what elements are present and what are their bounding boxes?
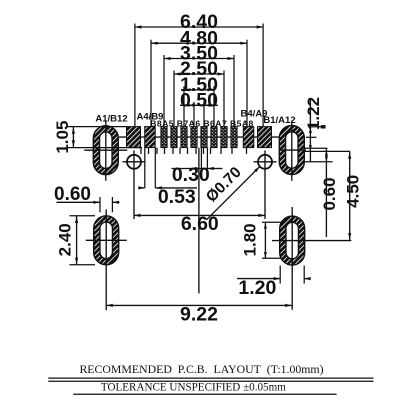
narrow pad 4	[191, 127, 197, 148]
dimension 3.50 top	[164, 58, 234, 60]
svg-text:RECOMMENDED P.C.B. LAYOUT (T:1: RECOMMENDED P.C.B. LAYOUT (T:1.00mm)	[79, 362, 323, 376]
dimension 0.60 lower-left	[99, 197, 101, 212]
narrow pad 7	[221, 127, 227, 148]
centerlines lower-left oval	[105, 210, 107, 311]
leader diameter 0.70	[207, 167, 260, 220]
svg-text:1.20: 1.20	[238, 277, 276, 299]
pad second wide right	[243, 127, 254, 148]
narrow pad 2	[171, 127, 177, 148]
dimension 0.30 pad width	[200, 148, 202, 169]
narrow pad 1	[161, 127, 167, 148]
svg-text:0.30: 0.30	[172, 164, 210, 186]
dimension 1.20 lower-right	[279, 266, 281, 284]
dimension 2.40 lower-left	[70, 215, 96, 217]
centerlines oval B1/A12	[291, 121, 293, 181]
pad row centerline	[119, 136, 281, 138]
svg-text:1.22: 1.22	[304, 97, 323, 130]
svg-text:4.50: 4.50	[343, 175, 362, 208]
svg-text:0.50: 0.50	[180, 90, 218, 112]
extension line oval center right upper	[305, 147, 328, 149]
dimension 0.53 pad width	[144, 148, 146, 188]
dimension 9.22 overall	[106, 304, 291, 306]
double rule	[48, 377, 373, 379]
svg-text:0.60: 0.60	[320, 177, 339, 210]
extension line 1.22 bottom	[305, 150, 351, 152]
plated hole left 0.70	[127, 155, 141, 169]
pad B4/A9 wide right	[258, 127, 272, 148]
pad A4/B9 wide left	[127, 127, 141, 148]
narrow pad 6	[211, 127, 217, 148]
dimension 6.60 holes	[134, 214, 265, 216]
dimension 1.22 right	[309, 99, 311, 162]
svg-text:A1/B12: A1/B12	[95, 114, 127, 125]
pad second wide left	[145, 127, 156, 148]
plated hole right 0.70	[258, 155, 272, 169]
oval pad A1/B12	[93, 126, 118, 175]
svg-text:0.53: 0.53	[158, 186, 196, 208]
svg-text:1.05: 1.05	[53, 121, 72, 154]
dimension 2.50 top	[174, 73, 224, 75]
dimension 1.80 lower-right	[262, 221, 282, 223]
dimension 0.60 right	[325, 149, 327, 238]
dimension 1.05 left	[66, 126, 127, 128]
dimension 1.50 top	[184, 89, 214, 91]
oval pad B1/A12	[279, 126, 304, 175]
pad extension stubs below row	[140, 148, 142, 154]
svg-text:B1/A12: B1/A12	[263, 115, 295, 126]
narrow pad 3	[181, 127, 187, 148]
extension line row centerline right	[306, 136, 316, 138]
narrow pad 8	[231, 127, 237, 148]
svg-text:9.22: 9.22	[180, 304, 218, 326]
bottom rule	[73, 393, 336, 395]
dimension 4.50 right	[349, 151, 351, 240]
centerlines lower-right oval	[291, 207, 293, 310]
dimension 0.50 top	[180, 104, 218, 106]
narrow pad 5	[201, 127, 207, 148]
svg-text:0.60: 0.60	[54, 184, 91, 205]
svg-text:1.80: 1.80	[241, 223, 260, 256]
extension line hole level right	[305, 161, 333, 163]
svg-text:2.40: 2.40	[55, 223, 74, 256]
dimension 4.80 top	[151, 42, 247, 44]
svg-text:6.60: 6.60	[181, 213, 219, 235]
connector centerline vertical	[198, 148, 200, 294]
svg-text:TOLERANCE UNSPECIFIED ±0.05mm: TOLERANCE UNSPECIFIED ±0.05mm	[101, 381, 286, 393]
lower-left mounting oval	[94, 216, 119, 265]
lower-right mounting oval	[280, 216, 305, 265]
dimension 6.40 top	[135, 26, 263, 28]
centerlines oval A1/B12	[105, 121, 107, 181]
